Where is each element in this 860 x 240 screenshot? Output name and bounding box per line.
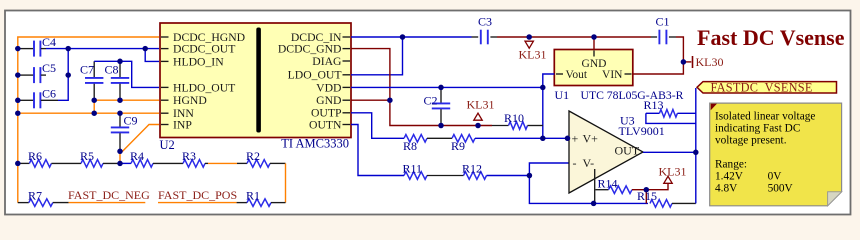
testpoint KL31 at R14 <box>646 183 668 189</box>
junction V- jog node <box>527 173 533 179</box>
svg-text:Vout: Vout <box>566 69 588 81</box>
svg-text:1.42V: 1.42V <box>715 170 744 182</box>
svg-text:R3: R3 <box>182 149 196 163</box>
junction V+ node <box>540 136 546 142</box>
capacitor C1 <box>651 36 657 38</box>
wire R5 to INP node <box>103 162 119 164</box>
capacitor C7 <box>93 61 95 77</box>
testpoint KL30 <box>683 61 691 63</box>
port FASTDC_VSENSE <box>697 82 837 93</box>
resistor R11 <box>404 172 427 180</box>
U2 right pin GND <box>343 99 351 101</box>
isolated amplifier U2 body <box>160 23 351 138</box>
junction OUT node <box>693 150 699 156</box>
wire DCDC_OUT row <box>46 48 159 50</box>
wire R2 right <box>270 162 286 164</box>
svg-text:R8: R8 <box>403 139 417 153</box>
wire to R1 <box>237 202 247 204</box>
wire DCDC_IN to LDO_OUT jog <box>351 37 403 75</box>
svg-text:R10: R10 <box>504 111 524 125</box>
svg-text:Range:: Range: <box>715 158 747 170</box>
svg-text:R5: R5 <box>80 149 94 163</box>
junction C8 top node <box>117 59 123 65</box>
wire DCDC_GND net <box>351 49 492 126</box>
junction C5 left <box>15 72 21 78</box>
svg-text:4.8V: 4.8V <box>715 182 738 194</box>
wire C7/C8 top node to HLDO_OUT <box>94 61 159 87</box>
svg-text:LDO_OUT: LDO_OUT <box>288 69 342 82</box>
resistor R7 <box>29 199 53 207</box>
junction C2 top VDD <box>438 85 444 91</box>
wire R9 to V+ <box>475 137 569 139</box>
svg-text:R6: R6 <box>28 149 42 163</box>
junction HLDO_IN tap <box>142 46 148 52</box>
junction HGND-INN <box>91 110 97 116</box>
svg-text:0V: 0V <box>768 170 783 182</box>
resistor R13 <box>646 112 660 114</box>
svg-text:KL31: KL31 <box>659 164 687 178</box>
svg-text:V-: V- <box>583 156 595 170</box>
U2 right pin OUTP <box>343 112 351 114</box>
svg-text:R14: R14 <box>598 176 618 190</box>
svg-text:C6: C6 <box>42 86 56 100</box>
wire R15 right <box>672 202 696 204</box>
junction C4 left <box>15 46 21 52</box>
svg-text:C5: C5 <box>42 61 56 75</box>
resistor R2 <box>247 160 270 168</box>
svg-text:R4: R4 <box>130 149 144 163</box>
U2 right pin OUTN <box>343 124 351 126</box>
U2 right pin DCDC_GND <box>343 48 351 50</box>
svg-text:Isolated linear voltage: Isolated linear voltage <box>715 110 815 122</box>
svg-text:DCDC_OUT: DCDC_OUT <box>173 43 235 56</box>
svg-text:OUT: OUT <box>615 143 640 157</box>
svg-text:C8: C8 <box>105 63 119 77</box>
svg-text:V+: V+ <box>583 132 599 146</box>
svg-text:C9: C9 <box>124 114 138 128</box>
svg-text:TI AMC3330: TI AMC3330 <box>281 137 349 151</box>
wire HGND row to U2 <box>94 99 159 101</box>
op-amp U3 triangle <box>569 111 643 193</box>
capacitor C4 <box>19 48 34 50</box>
junction C6 left <box>15 98 21 104</box>
wire op-amp output <box>643 151 696 153</box>
U2 left pin HGND <box>161 99 169 101</box>
svg-text:500V: 500V <box>768 182 794 194</box>
junction KL31 C2 row <box>475 123 481 129</box>
wire DCDC_IN row <box>351 36 472 38</box>
wire R3-R2 <box>205 162 208 164</box>
junction VDD Vout node <box>540 85 546 91</box>
junction C8 bottom HGND <box>117 97 123 103</box>
svg-text:FAST_DC_NEG: FAST_DC_NEG <box>68 188 150 202</box>
wire INP node vertical <box>119 151 121 163</box>
wire bus corner to R7 <box>18 202 29 204</box>
resistor R8 <box>404 135 427 143</box>
junction INN row left bus <box>15 110 21 116</box>
junction C4 right bus <box>65 46 71 52</box>
wire C1 right corner to VIN <box>633 37 683 74</box>
wire INN row <box>18 112 159 114</box>
wire node to R4 <box>119 162 131 164</box>
wire R7 right <box>53 202 69 204</box>
svg-text:C7: C7 <box>80 63 94 77</box>
svg-text:DCDC_GND: DCDC_GND <box>278 43 342 56</box>
testpoint KL31 at C3 row <box>525 41 533 48</box>
junction KL31 top row <box>526 34 532 40</box>
wire R13 left jog <box>646 113 696 123</box>
svg-text:VDD: VDD <box>316 81 341 94</box>
capacitor C9 <box>119 113 121 126</box>
svg-text:-: - <box>573 156 577 170</box>
junction R6 left bus <box>15 161 21 167</box>
svg-text:HLDO_IN: HLDO_IN <box>173 55 224 68</box>
note pin marker <box>711 104 717 111</box>
svg-text:R2: R2 <box>246 149 260 163</box>
capacitor C5 <box>19 74 34 76</box>
svg-text:R1: R1 <box>246 189 260 203</box>
svg-text:FASTDC_VSENSE: FASTDC_VSENSE <box>711 80 813 94</box>
wire HGND to INN vertical <box>93 100 95 113</box>
wire R6-R5 <box>51 162 81 164</box>
resistor R9 <box>452 135 475 143</box>
svg-text:DIAG: DIAG <box>312 55 342 68</box>
wire R12 to V- jog <box>487 175 530 177</box>
svg-text:+: + <box>572 132 579 146</box>
capacitor C8 <box>119 61 121 77</box>
capacitor C2 <box>440 87 442 102</box>
wire OUTN to R11 row <box>351 125 404 176</box>
U2 right pin VDD <box>343 86 351 88</box>
resistor R5 <box>81 160 103 168</box>
U2 left pin HLDO_OUT <box>161 86 169 88</box>
svg-text:R11: R11 <box>403 161 423 175</box>
wire DCDC_HGND net: top row and left bus <box>18 37 159 203</box>
note box <box>710 103 842 206</box>
junction C9 bottom INP node <box>117 149 123 155</box>
net label FAST_DC_POS wire <box>158 202 237 204</box>
wire OUTP to R8 row <box>351 113 404 139</box>
svg-text:Fast DC Vsense: Fast DC Vsense <box>697 25 845 50</box>
svg-text:TLV9001: TLV9001 <box>619 124 665 138</box>
wire OUT net vertical <box>695 88 697 203</box>
resistor R14 <box>595 189 608 191</box>
wire cap bus right vertical <box>58 49 68 101</box>
dot on V+ edge <box>565 136 571 142</box>
net label FAST_DC_NEG wire <box>69 202 146 204</box>
wire V- node down to bottom row <box>529 176 648 204</box>
svg-text:KL31: KL31 <box>519 48 547 62</box>
wire Vout vertical <box>543 74 555 138</box>
U2 right pin LDO_OUT <box>343 74 351 76</box>
capacitor C3 <box>472 36 479 38</box>
resistor R10 <box>492 125 509 127</box>
wire R4-R3 <box>153 162 183 164</box>
svg-text:U1: U1 <box>555 88 570 102</box>
svg-text:KL31: KL31 <box>467 98 495 112</box>
svg-text:UTC 78L05G-AB3-R: UTC 78L05G-AB3-R <box>581 89 684 102</box>
isolation barrier bar inside U2 <box>256 28 261 133</box>
wire VDD row <box>351 86 543 88</box>
svg-text:R12: R12 <box>462 161 482 175</box>
U2 right pin DIAG <box>343 60 351 62</box>
U2 left pin INN <box>161 112 169 114</box>
wire R1 right <box>271 202 286 204</box>
svg-text:HGND: HGND <box>173 94 207 107</box>
svg-text:INP: INP <box>173 118 192 131</box>
svg-text:HLDO_OUT: HLDO_OUT <box>173 81 235 94</box>
svg-text:voltage present.: voltage present. <box>715 134 787 146</box>
junction KL30 tap <box>681 59 687 65</box>
junction C2 bottom <box>438 123 444 129</box>
wire C3 to C1 maroon row <box>497 36 651 38</box>
svg-text:R7: R7 <box>28 189 42 203</box>
svg-text:OUTN: OUTN <box>309 118 342 131</box>
U2 left pin HLDO_IN <box>161 60 169 62</box>
U2 left pin DCDC_HGND <box>161 36 169 38</box>
U2 right pin DCDC_IN <box>343 36 351 38</box>
wire R8-R9 <box>427 137 452 139</box>
svg-text:KL30: KL30 <box>696 55 724 69</box>
resistor R4 <box>131 160 153 168</box>
wire INP diagonal <box>120 125 159 152</box>
wire GND pin to vertical <box>351 99 390 101</box>
resistor R6 <box>18 162 30 164</box>
junction C9 top INN <box>117 110 123 116</box>
svg-text:U2: U2 <box>160 138 175 152</box>
wire R2-R1 vertical <box>285 163 287 202</box>
junction DCDC_IN LDO_OUT tap <box>400 34 406 40</box>
resistor R1 <box>247 199 271 207</box>
wire R14 node down <box>645 190 647 204</box>
capacitor C6 <box>19 99 34 101</box>
junction C7 bottom HGND <box>91 97 97 103</box>
svg-text:VIN: VIN <box>602 69 623 81</box>
junction R5-R4 node <box>117 161 123 167</box>
resistor R15 <box>650 200 672 208</box>
svg-text:GND: GND <box>316 94 341 107</box>
U2 left pin INP <box>161 124 169 126</box>
junction GND pin tap <box>387 97 393 103</box>
svg-text:FAST_DC_POS: FAST_DC_POS <box>158 188 237 202</box>
svg-text:indicating Fast DC: indicating Fast DC <box>715 122 800 134</box>
junction R14 right node <box>644 187 650 193</box>
resistor R3 <box>183 160 205 168</box>
wire HLDO_IN jog <box>145 49 159 62</box>
svg-text:C1: C1 <box>656 15 670 29</box>
wire U1 GND vertical <box>593 37 595 50</box>
U2 left pin DCDC_OUT <box>161 48 169 50</box>
svg-text:C2: C2 <box>424 93 438 107</box>
testpoint KL31 at C2 row <box>474 113 482 120</box>
junction feedback bottom node <box>591 201 597 207</box>
svg-text:R13: R13 <box>644 98 664 112</box>
svg-text:R9: R9 <box>451 139 465 153</box>
junction C5 right bus <box>65 72 71 78</box>
junction U1 GND tap <box>591 34 597 40</box>
resistor R12 <box>464 172 487 180</box>
wire V- stub down <box>594 169 596 203</box>
wire R11-R12 <box>427 175 464 177</box>
svg-text:C4: C4 <box>42 35 56 49</box>
svg-text:C3: C3 <box>478 15 492 29</box>
regulator U1 body <box>554 50 633 86</box>
